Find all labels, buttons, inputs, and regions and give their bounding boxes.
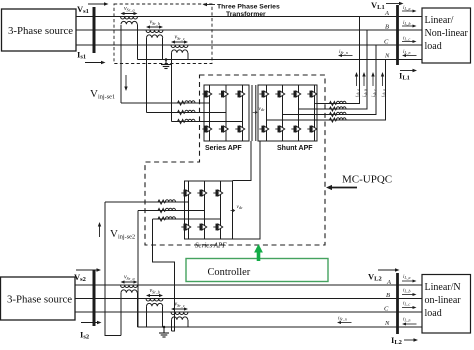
arrow VL1 [386, 2, 404, 5]
wire series APF1 input b [147, 112, 227, 114]
wire phase C feeder2 [75, 311, 422, 313]
arrow IL1 [400, 69, 417, 72]
transistor series APF2 bottom leg 1 [181, 224, 190, 231]
inductor shunt filter a [330, 101, 347, 105]
arrow Vs2 [76, 268, 101, 271]
wire series APF2 input b [138, 210, 205, 212]
svg-text:Controller: Controller [208, 267, 251, 278]
wire series APF1 leg 1 [209, 85, 211, 141]
arrow Is2 [81, 321, 102, 324]
svg-text:B: B [386, 292, 390, 299]
svg-text:load: load [425, 41, 442, 52]
series APF2 box [185, 181, 233, 239]
transistor shunt APF bottom leg 4 [307, 126, 316, 133]
arrow i_sh_n [381, 72, 384, 86]
svg-text:ish_c: ish_c [372, 89, 377, 97]
wire series APF2 input a [105, 201, 189, 203]
svg-text:vSr_c: vSr_c [175, 302, 185, 309]
wire shunt APF leg 2 [282, 85, 284, 141]
wire shunt APF leg 3 [298, 85, 300, 141]
arrow Is1 [85, 61, 106, 64]
wire shunt APF tap 4 [267, 119, 318, 121]
transistor series APF1 bottom leg 1 [202, 126, 211, 133]
inductor shunt filter c [330, 112, 347, 116]
transistor shunt APF top leg 3 [291, 91, 300, 98]
wire T2a secondary left down [120, 293, 122, 336]
transistor shunt APF top leg 1 [259, 91, 268, 98]
svg-text:vSr_c: vSr_c [175, 35, 185, 42]
svg-text:Linear/N: Linear/N [425, 282, 461, 293]
wire series APF2 leg 3 [220, 181, 222, 239]
wire APF2 a down [105, 202, 121, 336]
svg-text:ish_a: ish_a [356, 89, 361, 97]
load 1 box [422, 8, 471, 63]
wire phase C feeder1 [76, 44, 422, 46]
wire APF2 b down [137, 211, 139, 328]
wire phase A feeder1 [76, 16, 422, 18]
3-phase source 1 box [2, 9, 77, 51]
load 2 box [422, 275, 471, 334]
transformer T2a [121, 275, 138, 293]
arrow IL2 [404, 338, 418, 341]
inductor filter Lb2 [158, 208, 176, 212]
wire DC link down left [233, 141, 252, 181]
wire DC link rail - [255, 85, 257, 141]
svg-text:3-Phase source: 3-Phase source [7, 294, 72, 306]
svg-text:Series APF: Series APF [195, 242, 227, 250]
label Vdc 1 [253, 106, 265, 114]
bus bar Vs2 [93, 270, 96, 326]
wire series APF1 leg 2 [225, 85, 227, 141]
arrow Vs1 [88, 2, 109, 5]
transistor shunt APF bottom leg 3 [291, 126, 300, 133]
wire shunt output phase n [317, 60, 386, 121]
arrow i_sh_b [362, 72, 365, 86]
svg-text:N: N [384, 320, 390, 327]
svg-text:B: B [385, 24, 389, 31]
inductor shunt filter b [330, 107, 347, 111]
svg-text:load: load [425, 308, 442, 319]
wire shunt APF leg 4 [314, 85, 316, 141]
svg-text:N: N [384, 53, 390, 60]
arrow i_sh_a [355, 72, 358, 86]
wire shunt APF leg 1 [266, 85, 268, 141]
label Vdc 2 [231, 204, 243, 212]
wire T1b secondary right to neutral rail [162, 38, 164, 60]
dashed box three phase series transformer [114, 4, 212, 64]
inductor filter La2 [158, 200, 176, 204]
wire shunt output phase b [317, 30, 367, 109]
wire neutral N feeder2 [138, 326, 423, 328]
wire shunt APF tap 1 [315, 103, 318, 105]
transistor series APF2 bottom leg 3 [213, 224, 222, 231]
inductor filter Lb1 [178, 110, 196, 114]
inductor filter Lc2 [158, 217, 176, 221]
arrow MC-UPQC [326, 185, 357, 190]
bus bar VL2 [396, 273, 399, 334]
wire neutral N feeder1 [138, 59, 423, 61]
wire series APF2 leg 1 [188, 181, 190, 239]
svg-text:Non-linear: Non-linear [425, 28, 469, 39]
transistor series APF1 bottom leg 2 [219, 126, 228, 133]
transformer T2b [146, 288, 163, 306]
shunt APF box [258, 85, 317, 141]
controller box [186, 259, 328, 282]
svg-text:A: A [386, 279, 391, 286]
wire phase A feeder2 [75, 284, 422, 286]
inductor filter Lc1 [178, 119, 196, 123]
inductor filter La1 [178, 101, 196, 105]
transistor shunt APF top leg 2 [275, 91, 284, 98]
wire DC link down right [233, 141, 261, 239]
svg-text:vSr_b: vSr_b [150, 288, 161, 295]
series APF1 box [204, 85, 249, 141]
svg-text:3-Phase source: 3-Phase source [8, 25, 73, 37]
wire series APF2 input c [153, 218, 221, 220]
transistor shunt APF bottom leg 2 [275, 126, 284, 133]
wire APF2 c down [153, 219, 175, 331]
transistor series APF1 bottom leg 3 [235, 126, 244, 133]
svg-text:Series APF: Series APF [205, 145, 242, 152]
arrow V_inj-se1 down [124, 75, 127, 91]
svg-text:vSr_b: vSr_b [150, 20, 161, 27]
dashed box MC-UPQC [145, 75, 325, 245]
wire T1c secondary left down (series APF1 phase c) [171, 53, 173, 122]
wire T2a secondary right down [137, 293, 139, 327]
svg-text:C: C [384, 39, 389, 46]
wire T1a secondary left to series APF1 phase a [120, 25, 122, 103]
wire T2c secondary right down [187, 320, 189, 327]
svg-text:on-linear: on-linear [425, 295, 462, 306]
svg-text:vSr_a: vSr_a [124, 6, 135, 13]
arrow to transformer box [203, 3, 216, 6]
transistor series APF2 top leg 2 [197, 190, 206, 197]
transformer T1a [121, 6, 138, 24]
arrow V_inj-se2 up [98, 222, 101, 237]
junction dot neutral/ground feeder2 [163, 326, 166, 329]
svg-text:ish_b: ish_b [363, 89, 368, 97]
wire shunt APF tap 3 [283, 114, 318, 116]
wire series APF1 leg 3 [242, 85, 244, 141]
wire T2c secondary left down [171, 320, 173, 331]
svg-text:Transformer: Transformer [226, 11, 266, 18]
wire shunt output phase a [317, 17, 360, 104]
wire T1c secondary right to neutral [187, 53, 189, 60]
transformer T1b [146, 20, 163, 38]
inductor shunt filter n [330, 118, 347, 122]
transistor series APF2 top leg 1 [181, 190, 190, 197]
wire shunt output phase c [317, 45, 376, 115]
ground feeder2 [159, 328, 169, 337]
transistor shunt APF top leg 4 [307, 91, 316, 98]
transformer T2c [171, 302, 188, 320]
wire T2b secondary right down [162, 306, 164, 327]
arrow VL2 [378, 268, 400, 271]
label Three Phase Series Transformer [217, 4, 280, 19]
wire DC link rail + [251, 85, 253, 141]
junction dot neutral/ground feeder1 [165, 58, 168, 61]
transistor series APF1 top leg 1 [202, 91, 211, 98]
svg-text:Three Phase Series: Three Phase Series [217, 4, 280, 11]
arrow i_sh_c [371, 72, 374, 86]
ground feeder1 [161, 60, 171, 69]
svg-text:C: C [384, 306, 389, 313]
wire T1a secondary right to neutral rail [137, 24, 139, 59]
bus bar VL1 [396, 5, 399, 65]
wire shunt APF tap 2 [299, 108, 318, 110]
transistor series APF1 top leg 3 [235, 91, 244, 98]
transistor shunt APF bottom leg 1 [259, 126, 268, 133]
transformer T1c [171, 35, 188, 53]
svg-text:vSr_a: vSr_a [124, 275, 135, 282]
svg-text:MC-UPQC: MC-UPQC [342, 174, 392, 186]
transistor series APF2 bottom leg 2 [197, 224, 206, 231]
transistor series APF2 top leg 3 [213, 190, 222, 197]
wire T1b secondary left down (series APF1 phase b) [146, 38, 148, 113]
wire phase B feeder2 [75, 298, 422, 300]
svg-text:Linear/: Linear/ [425, 15, 454, 26]
wire series APF1 input a [121, 102, 210, 104]
wire series APF1 input c [172, 121, 243, 123]
svg-text:ish_n: ish_n [382, 89, 387, 97]
svg-text:A: A [384, 10, 389, 17]
bus bar Vs1 [93, 7, 96, 53]
3-phase source 2 box [1, 277, 76, 320]
svg-text:Shunt APF: Shunt APF [277, 145, 313, 152]
wire phase B feeder1 [76, 29, 422, 31]
wire T2b secondary left down [146, 306, 148, 327]
transistor series APF1 top leg 2 [219, 91, 228, 98]
green arrow controller [254, 244, 263, 261]
wire series APF2 leg 2 [204, 181, 206, 239]
